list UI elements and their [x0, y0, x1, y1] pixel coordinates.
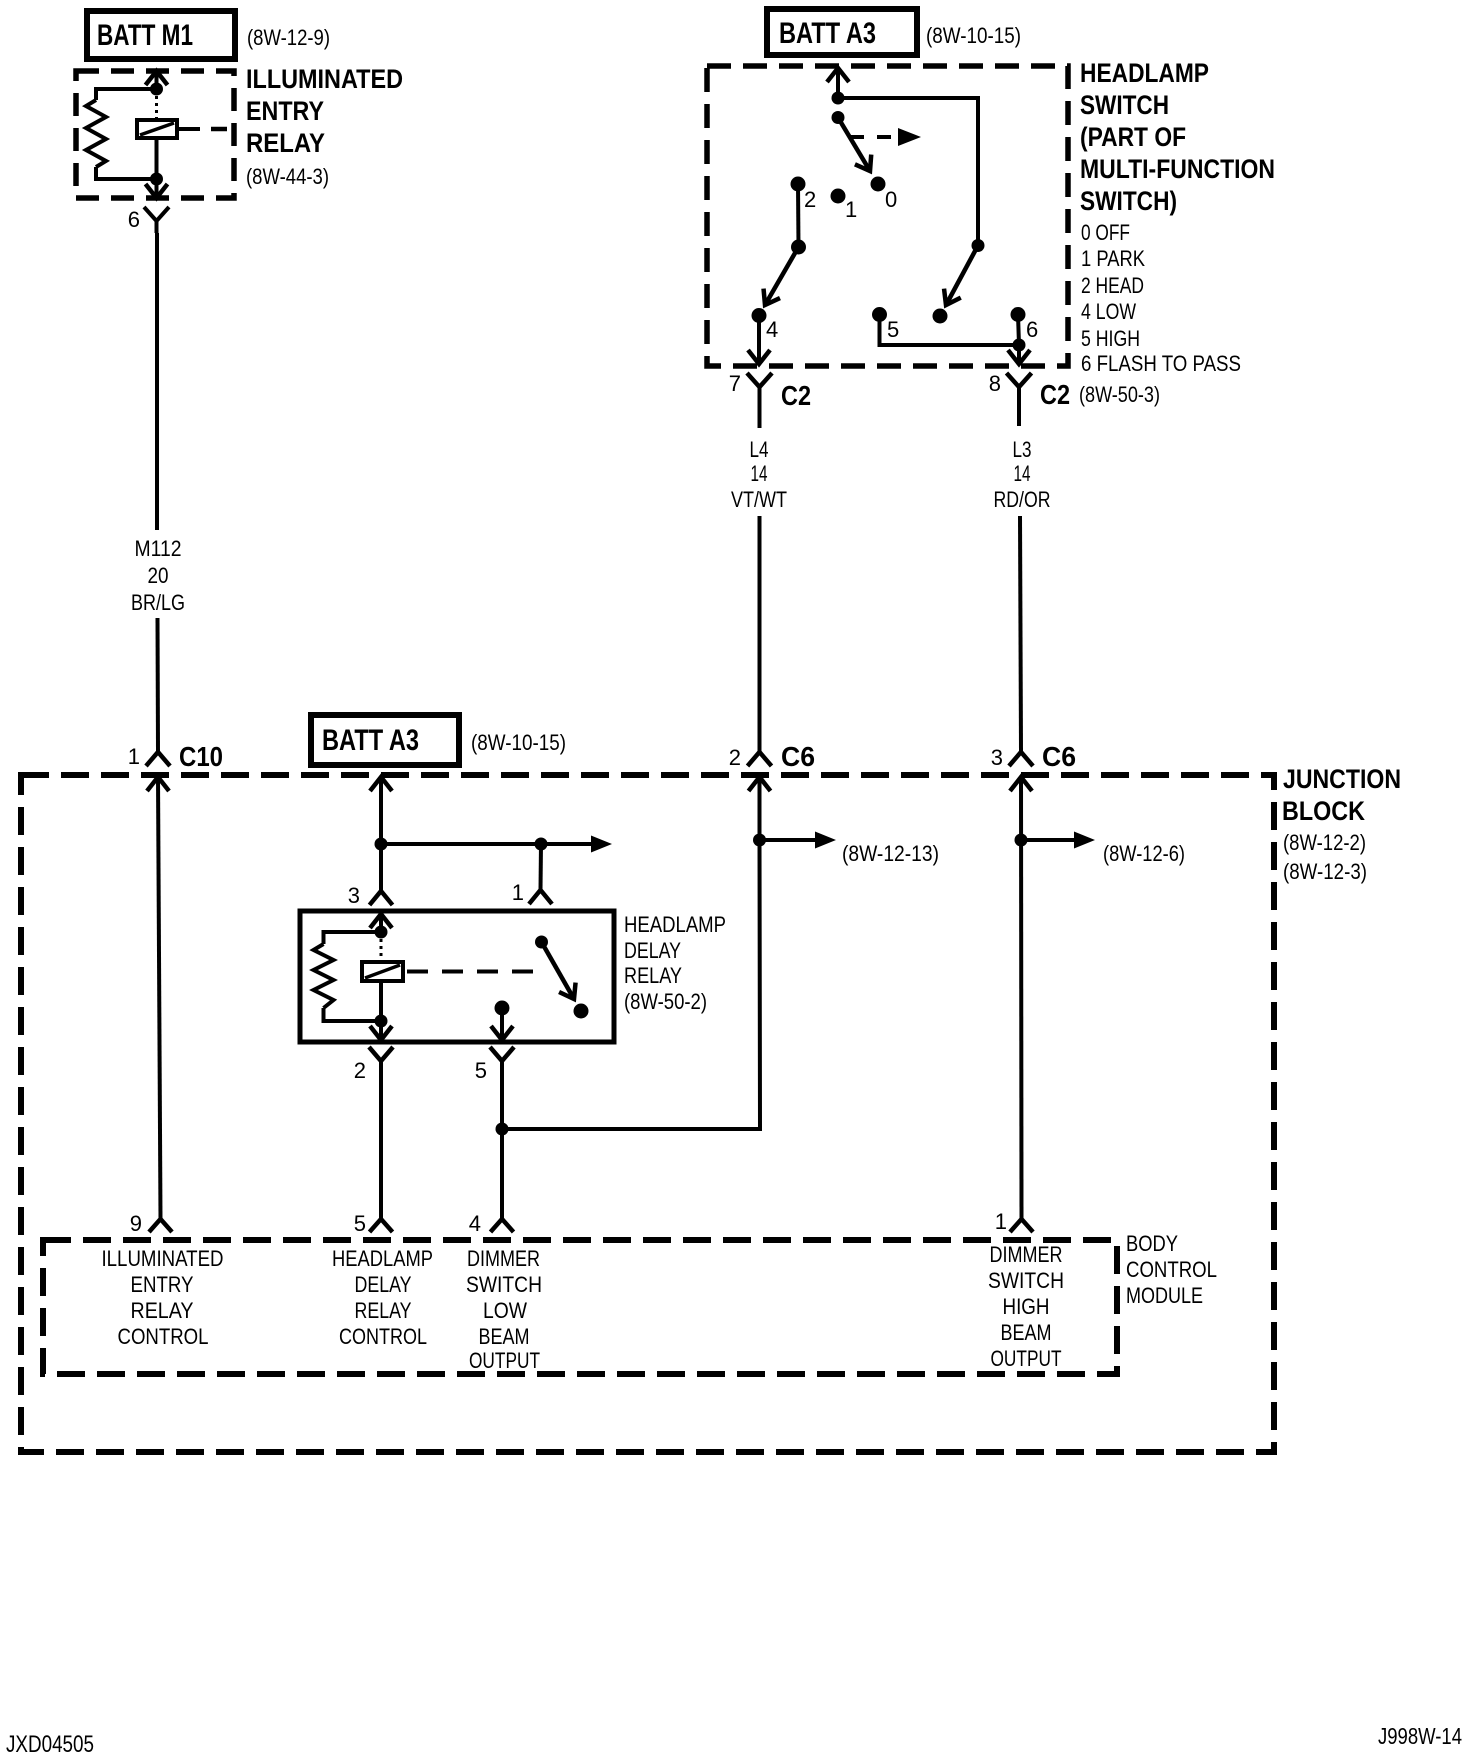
svg-text:BATT A3: BATT A3	[322, 724, 419, 757]
svg-text:MODULE: MODULE	[1126, 1283, 1203, 1308]
svg-text:BLOCK: BLOCK	[1282, 796, 1365, 826]
svg-text:SWITCH: SWITCH	[1080, 90, 1169, 120]
delay relay contact arm	[542, 942, 575, 999]
relay coil armature dotted link	[155, 96, 158, 120]
svg-text:(8W-12-2): (8W-12-2)	[1283, 830, 1366, 855]
svg-text:(8W-12-6): (8W-12-6)	[1103, 841, 1185, 866]
svg-text:5: 5	[475, 1058, 487, 1083]
svg-text:CONTROL: CONTROL	[118, 1324, 209, 1349]
SECTION C : junction block	[21, 715, 1401, 1452]
svg-text:14: 14	[751, 461, 768, 486]
svg-text:RELAY: RELAY	[355, 1298, 412, 1323]
svg-text:SWITCH: SWITCH	[466, 1272, 542, 1297]
connector C10 female fork	[146, 752, 170, 766]
wire delay coil bottom	[379, 981, 383, 1021]
svg-text:7: 7	[729, 371, 741, 396]
svg-text:1: 1	[512, 880, 524, 905]
delay coil armature dotted link	[380, 939, 383, 962]
wire pin 8 stem	[1017, 387, 1021, 426]
svg-text:3: 3	[348, 883, 360, 908]
connector arrow down at pin 8	[1008, 350, 1030, 364]
rotation direction dashed arrow	[850, 135, 898, 139]
wire to resistor top	[96, 89, 157, 100]
delay coil slash	[365, 965, 400, 978]
svg-text:2: 2	[729, 745, 741, 770]
svg-text:2: 2	[804, 187, 816, 212]
svg-text:(8W-50-3): (8W-50-3)	[1079, 382, 1160, 407]
svg-text:JXD04505: JXD04505	[6, 1731, 94, 1758]
node delay coil top	[375, 926, 388, 939]
svg-text:HIGH: HIGH	[1003, 1294, 1050, 1319]
wiper rest contact	[933, 309, 948, 324]
connector C6 pin2 female fork	[748, 752, 772, 766]
svg-text:6 FLASH TO PASS: 6 FLASH TO PASS	[1081, 351, 1241, 376]
wire contact 4 to pin 7	[757, 316, 761, 365]
wire L4 down to junction block	[758, 516, 762, 751]
wire feed to right branch	[838, 98, 978, 245]
power feed box BATT A3 inner	[311, 715, 459, 765]
relay coil right lead	[177, 127, 200, 131]
connector arrow down at pin 7	[748, 350, 770, 364]
wire feed split across	[381, 842, 541, 846]
svg-text:BATT A3: BATT A3	[779, 17, 876, 50]
contact 0	[871, 177, 886, 192]
svg-text:(PART OF: (PART OF	[1080, 122, 1186, 152]
svg-text:OUTPUT: OUTPUT	[469, 1348, 540, 1373]
contact 6	[1011, 307, 1026, 322]
node delay contact pivot	[535, 936, 548, 949]
node relay coil bottom	[150, 173, 163, 186]
switch wiper arm to contact 4	[765, 247, 799, 305]
connector arrow down out of relay	[146, 184, 168, 198]
svg-text:3: 3	[991, 745, 1003, 770]
relay coil box	[137, 120, 177, 138]
pin 6 female fork	[144, 207, 169, 221]
branch arrow to 8W-12-6	[1021, 838, 1074, 842]
svg-text:DELAY: DELAY	[624, 938, 681, 963]
svg-text:9: 9	[130, 1211, 142, 1236]
delay relay coil box	[362, 962, 403, 981]
svg-text:ILLUMINATED: ILLUMINATED	[246, 64, 403, 94]
wire C6 pin3 down to BCM pin 1	[1019, 777, 1024, 1219]
resistor relay suppression	[86, 100, 106, 167]
svg-text:MULTI-FUNCTION: MULTI-FUNCTION	[1080, 154, 1275, 184]
svg-text:RELAY: RELAY	[131, 1298, 194, 1323]
wire pin 5 stem	[500, 1061, 504, 1072]
svg-text:BR/LG: BR/LG	[131, 590, 185, 615]
wire L3 down to junction block	[1020, 516, 1021, 751]
wire coil bottom	[155, 138, 159, 179]
svg-text:SWITCH): SWITCH)	[1080, 186, 1177, 216]
node feed split left	[375, 838, 388, 851]
svg-text:BEAM: BEAM	[479, 1324, 530, 1349]
delay contact throw	[574, 1004, 589, 1019]
connector arrow up into switch from BATT A3	[827, 68, 849, 82]
svg-text:(8W-10-15): (8W-10-15)	[926, 23, 1021, 48]
wire resistor bottom	[96, 167, 157, 179]
svg-text:J998W-14: J998W-14	[1378, 1723, 1462, 1749]
svg-text:L3: L3	[1013, 437, 1032, 462]
wire to relay pin 2	[379, 1021, 383, 1040]
svg-text:2 HEAD: 2 HEAD	[1081, 273, 1144, 298]
headlamp switch dashed box	[707, 66, 1068, 366]
svg-text:BATT M1: BATT M1	[97, 19, 193, 52]
svg-text:RELAY: RELAY	[246, 128, 325, 158]
svg-text:ENTRY: ENTRY	[246, 96, 324, 126]
wire delay resistor bottom	[324, 1008, 382, 1021]
BCM pin 9 fork	[149, 1219, 172, 1232]
SECTION B : top-right headlamp switch	[707, 9, 1275, 751]
svg-text:M112: M112	[135, 536, 182, 561]
wire C10 down to BCM pin 9	[158, 777, 161, 1219]
svg-text:CONTROL: CONTROL	[1126, 1257, 1217, 1282]
wire contact 5 to pin 8	[880, 315, 1020, 346]
svg-text:CONTROL: CONTROL	[339, 1324, 427, 1349]
svg-text:LOW: LOW	[483, 1298, 527, 1323]
wire C6 pin2 down	[758, 777, 762, 840]
connector arrow up under inner BATT A3	[370, 777, 392, 791]
power feed box BATT A3	[767, 9, 917, 55]
svg-text:4 LOW: 4 LOW	[1081, 299, 1136, 324]
BCM pin 1 fork	[1010, 1219, 1033, 1232]
switch wiper arm high/low	[946, 246, 978, 306]
svg-text:2: 2	[354, 1058, 366, 1083]
svg-text:6: 6	[128, 207, 140, 232]
contact 1	[831, 189, 846, 204]
node common pole upper	[832, 111, 845, 124]
connector arrow up into junction block at C6 pin2	[749, 777, 771, 791]
relay contact dash	[211, 127, 227, 132]
relay pin 5 exit fork	[490, 1047, 514, 1061]
svg-text:4: 4	[469, 1211, 481, 1236]
svg-text:HEADLAMP: HEADLAMP	[332, 1246, 433, 1271]
svg-text:20: 20	[148, 563, 169, 588]
svg-text:BODY: BODY	[1126, 1231, 1178, 1256]
connector arrow into relay pin 3	[370, 914, 392, 928]
SECTION D : body control module	[43, 1209, 1217, 1374]
relay pin 3 fork	[370, 891, 393, 905]
node switch feed	[832, 92, 845, 105]
wire to delay resistor	[324, 932, 382, 944]
wire pin 7 stem	[758, 387, 762, 428]
wire low beam down and left to relay pin5 column	[502, 840, 760, 1129]
wire BATT A3 feed down	[379, 777, 383, 844]
illuminated entry relay dashed box	[76, 71, 234, 198]
node right wiper pivot	[972, 239, 985, 252]
connector arrow up into junction block at C10	[147, 777, 169, 791]
svg-text:14: 14	[1014, 461, 1031, 486]
wire down to relay pin 1	[539, 844, 544, 890]
wire M112 lower segment	[156, 618, 161, 751]
svg-text:(8W-10-15): (8W-10-15)	[471, 730, 566, 755]
svg-text:5 HIGH: 5 HIGH	[1081, 326, 1140, 351]
connector arrow out of relay pin 2	[370, 1026, 392, 1040]
svg-text:L4: L4	[750, 437, 769, 462]
svg-text:C2: C2	[781, 380, 811, 411]
wire M112 upper segment	[155, 233, 159, 530]
svg-text:HEADLAMP: HEADLAMP	[1080, 58, 1209, 88]
node low beam join	[496, 1123, 509, 1136]
svg-text:1: 1	[128, 744, 140, 769]
svg-text:C6: C6	[781, 741, 815, 772]
junction block dashed box	[21, 775, 1274, 1452]
wire relay pin 2 down to BCM pin 5	[379, 1072, 383, 1219]
wire relay top stub	[155, 71, 159, 89]
connector arrow up into relay from BATT M1	[146, 71, 168, 85]
svg-text:(8W-12-9): (8W-12-9)	[247, 25, 330, 50]
BCM pin 5 fork	[370, 1219, 393, 1232]
svg-text:DIMMER: DIMMER	[467, 1246, 540, 1271]
headlamp delay relay box	[300, 911, 614, 1042]
wire contact 2 down	[796, 184, 801, 247]
svg-text:(8W-12-3): (8W-12-3)	[1283, 859, 1367, 884]
svg-text:RD/OR: RD/OR	[994, 487, 1051, 512]
svg-text:0 OFF: 0 OFF	[1081, 220, 1130, 245]
node high beam branch	[1015, 834, 1028, 847]
wire switch feed stub	[836, 68, 840, 98]
resistor delay relay	[314, 944, 334, 1008]
svg-text:(8W-12-13): (8W-12-13)	[842, 841, 939, 866]
svg-text:DELAY: DELAY	[355, 1272, 412, 1297]
node feed split right	[535, 838, 548, 851]
wire pin 3 stub	[379, 914, 383, 932]
delay contact dashed link	[407, 970, 533, 974]
wire to pin 6	[155, 179, 159, 198]
power feed box BATT M1	[87, 11, 235, 59]
wire pin 2 stem	[379, 1061, 383, 1072]
relay pin 1 fork	[529, 890, 552, 904]
svg-text:8: 8	[989, 371, 1001, 396]
svg-text:RELAY: RELAY	[624, 963, 682, 988]
relay pin 2 exit fork	[369, 1047, 393, 1061]
contact 4	[752, 308, 767, 323]
contact 5	[872, 307, 887, 322]
svg-text:VT/WT: VT/WT	[731, 487, 787, 512]
wire fork stem down	[155, 221, 159, 233]
SECTION A : top-left BATT M1 / illuminated entry relay	[76, 11, 403, 751]
feed continuation arrow	[541, 842, 591, 846]
wire to relay pin 5	[500, 1008, 504, 1040]
SECTION E : footer	[6, 1723, 1462, 1758]
node relay pin 5 top	[495, 1001, 510, 1016]
svg-text:(8W-44-3): (8W-44-3)	[246, 164, 329, 189]
switch wiper arm to position 0	[838, 118, 870, 172]
wire contact 6 down	[1018, 315, 1019, 346]
body control module dashed box	[43, 1240, 1117, 1374]
node pin 8 junction	[1013, 339, 1026, 352]
svg-text:ILLUMINATED: ILLUMINATED	[102, 1246, 224, 1271]
svg-text:5: 5	[887, 317, 899, 342]
contact 2	[791, 177, 806, 192]
connector arrow out of relay pin 5	[491, 1026, 513, 1040]
svg-text:1 PARK: 1 PARK	[1081, 246, 1145, 271]
svg-text:C2: C2	[1040, 379, 1070, 410]
BCM pin 4 fork	[491, 1219, 514, 1232]
connector arrow up into junction block at C6 pin3	[1010, 777, 1032, 791]
svg-text:ENTRY: ENTRY	[131, 1272, 194, 1297]
pin 7 female fork	[747, 373, 772, 387]
svg-text:DIMMER: DIMMER	[990, 1242, 1063, 1267]
svg-text:BEAM: BEAM	[1001, 1320, 1052, 1345]
node delay coil bottom	[375, 1015, 388, 1028]
relay coil slash	[140, 123, 174, 135]
svg-text:SWITCH: SWITCH	[988, 1268, 1064, 1293]
connector C6 pin3 female fork	[1009, 752, 1033, 766]
pin 8 female fork	[1007, 373, 1032, 387]
svg-text:0: 0	[885, 187, 897, 212]
node low beam branch	[753, 834, 766, 847]
wire relay pin 5 down to BCM pin 4	[500, 1072, 504, 1219]
svg-text:OUTPUT: OUTPUT	[991, 1346, 1062, 1371]
wire down to relay pin 3	[379, 844, 383, 891]
svg-text:4: 4	[766, 317, 778, 342]
svg-text:C6: C6	[1042, 741, 1076, 772]
node left wiper pivot	[791, 240, 806, 255]
svg-text:HEADLAMP: HEADLAMP	[624, 912, 726, 937]
svg-text:5: 5	[354, 1211, 366, 1236]
svg-text:6: 6	[1026, 317, 1038, 342]
branch arrow to 8W-12-13	[760, 838, 816, 842]
svg-text:(8W-50-2): (8W-50-2)	[624, 989, 707, 1014]
svg-text:1: 1	[845, 197, 857, 222]
svg-text:1: 1	[995, 1209, 1007, 1234]
svg-text:C10: C10	[179, 741, 223, 772]
wire junction to pin 8	[1017, 345, 1021, 364]
svg-text:JUNCTION: JUNCTION	[1283, 764, 1401, 794]
node relay coil top	[150, 83, 163, 96]
